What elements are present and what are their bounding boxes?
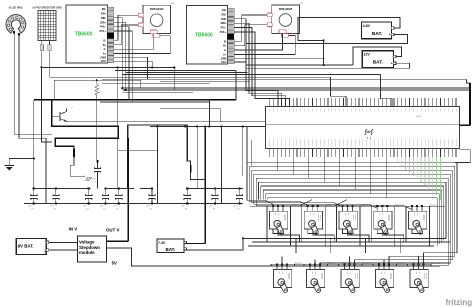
wire row1 mid drops	[295, 238, 297, 252]
capacitor bottom rail	[24, 203, 243, 205]
wire bus y72	[126, 72, 248, 74]
svg-text:DIR+: DIR+	[100, 20, 106, 24]
Servo 6 pin SIG	[354, 266, 356, 270]
Servo 5 pin V+	[347, 207, 349, 211]
device Q3 (bar symbol mid)	[190, 165, 192, 173]
wire U1 GND to bus	[114, 57, 148, 79]
wire connector y150.9	[118, 150, 158, 152]
svg-text:+: +	[391, 62, 393, 66]
svg-text:16 LED RING: 16 LED RING	[8, 8, 22, 10]
svg-text:A-: A-	[224, 48, 227, 52]
svg-text:IN V: IN V	[69, 227, 78, 232]
wire motor M2 lead B1	[234, 33, 282, 50]
wire staircase run 5	[256, 177, 448, 179]
wire x205 to 7.4V battery	[187, 243, 206, 245]
wire staircase pin drops (black)	[277, 157, 279, 170]
wire U1 VCC to bus	[114, 61, 153, 67]
wire U1 DIR+ to bus	[114, 22, 126, 90]
svg-text:ROB-09420: ROB-09420	[150, 8, 164, 11]
svg-text:fritzing: fritzing	[446, 298, 473, 307]
wire resistor to C10	[96, 95, 98, 161]
Servo 1 horn	[275, 221, 283, 234]
wire bus y99 (thick)	[34, 99, 236, 101]
svg-text:+: +	[44, 250, 46, 254]
wire row1 under-box loops	[273, 229, 284, 233]
wire 12V plus loop	[246, 63, 410, 68]
vertical net x157	[156, 126, 158, 203]
wire ring pin2 down	[19, 35, 46, 203]
Servo 7 pin SIG	[386, 207, 388, 211]
Servo 9 horn	[414, 221, 422, 234]
Arduino Mega top pin row	[270, 98, 456, 107]
wire bus y81	[160, 80, 250, 82]
Servo 4 horn	[312, 280, 320, 293]
wire grid pin2 down	[49, 51, 51, 77]
junction ground-caps	[33, 157, 35, 159]
Servo 7 pin V+	[381, 207, 383, 211]
wire bus y74	[122, 74, 381, 76]
capacitor C1	[28, 187, 37, 210]
wire motor M1 lead B2	[114, 36, 170, 54]
svg-text:-: -	[45, 239, 46, 243]
wire servo power rail row1	[243, 237, 446, 239]
wire U1 PUL- to bus	[114, 27, 129, 100]
svg-text:GND: GND	[100, 55, 106, 59]
Servo 8 pin SIG	[388, 266, 390, 270]
voltage stepdown module U3	[78, 236, 107, 262]
wire servo row2 power risers	[271, 263, 277, 266]
svg-text:——: ——	[455, 134, 459, 136]
svg-text:12V: 12V	[363, 53, 370, 57]
wire bus y101	[100, 101, 209, 103]
U2 microstep switch block	[227, 33, 234, 39]
junction grid bus	[40, 66, 42, 68]
Servo 2 horn	[279, 280, 287, 293]
wire bus y74 to MCU top	[381, 75, 393, 107]
wire thick mid loop	[128, 125, 191, 188]
wire staircase run 9	[265, 193, 439, 195]
svg-text:EN+: EN+	[221, 12, 227, 16]
Servo 3 pin GND	[307, 207, 309, 211]
wire 5V rail from module	[106, 248, 243, 266]
diode D1 (small, lower left)	[85, 177, 92, 180]
svg-text:PUL-: PUL-	[100, 25, 106, 29]
svg-text:PUL+: PUL+	[100, 29, 107, 33]
svg-text:TB6600: TB6600	[75, 32, 93, 38]
stepper motor M1 ROB-09420 body	[143, 5, 171, 33]
svg-text:DIR-: DIR-	[101, 16, 106, 20]
wire motor M2 lead B2	[234, 35, 295, 54]
svg-text:PUL-: PUL-	[221, 26, 227, 30]
wire motor M1 lead B1	[114, 34, 154, 50]
Servo 2 pin V+	[281, 266, 283, 270]
Servo 6 pin GND	[344, 266, 346, 270]
wire 9V+ to stepdown IN	[49, 241, 78, 243]
wire U2 DIR+ staircase to MCU	[234, 23, 282, 106]
svg-text:GND: GND	[221, 56, 227, 60]
wire 4.8V plus loop	[246, 35, 407, 44]
svg-text:-: -	[390, 25, 391, 29]
battery BT1 4.8V	[361, 22, 391, 39]
sensor grid J1 (matrix pad, top left)	[38, 10, 56, 40]
wire bus y90 (heavy)	[122, 89, 470, 91]
wire row1 interbox loops	[278, 229, 300, 242]
wire 4.8V minus loop	[298, 18, 400, 41]
Servo 5 horn	[345, 221, 353, 234]
svg-text:PWM: PWM	[416, 116, 422, 118]
wire bus y70	[115, 69, 236, 71]
svg-text:ROB-09420: ROB-09420	[279, 8, 293, 11]
capacitor C5	[113, 187, 122, 210]
M1 terminal B1 (bottom)	[150, 30, 157, 34]
wire thick riser x205	[204, 126, 206, 244]
Servo 9 pin SIG	[421, 207, 423, 211]
svg-text:A+: A+	[103, 52, 107, 56]
servo Servo 9 body	[409, 211, 427, 229]
svg-text:OUT V: OUT V	[106, 227, 119, 232]
Servo 9 pin GND	[411, 207, 413, 211]
wire staircase runs right verticals to servo row2	[424, 162, 458, 263]
wire bus y67 grid to drivers	[42, 66, 175, 68]
wire U2 PUL- staircase to MCU	[234, 28, 285, 107]
wire staircase runs 1-5 left verticals to servo row1 pads	[247, 162, 273, 205]
wire thick loop (5V distribution left)	[52, 100, 118, 149]
sensor grid pin 1	[41, 41, 43, 45]
Servo 4 pin SIG	[319, 266, 321, 270]
wire U1 PUL+ to bus	[114, 31, 132, 102]
svg-text:BAT.: BAT.	[372, 31, 382, 37]
BT1 plus terminal	[391, 33, 394, 36]
Servo 5 pin GND	[342, 207, 344, 211]
svg-text:DIR+: DIR+	[221, 21, 227, 25]
BT4 minus terminal	[184, 241, 186, 243]
svg-text:BAT.: BAT.	[373, 60, 383, 66]
capacitor C9	[234, 187, 243, 210]
wire bus y83	[102, 82, 209, 84]
Servo 10 pin GND	[413, 266, 415, 270]
vertical net x117	[117, 67, 119, 188]
svg-text:module: module	[79, 250, 95, 255]
resistor R1 10k	[95, 80, 99, 95]
wire U2 VCC to battery rail	[234, 62, 246, 65]
sensor grid pin 2	[49, 41, 51, 45]
M2 terminal A2 (left bottom)	[267, 23, 272, 27]
wire motor M1 lead A1	[114, 15, 139, 40]
wire grid pin1 down to bus	[41, 51, 43, 68]
vertical net x197	[196, 126, 198, 188]
wire bus y92	[122, 91, 193, 93]
wire servo row2 pad-level bus	[271, 263, 431, 265]
svg-text:TB6600: TB6600	[195, 33, 213, 39]
M2 terminal A1 (left top)	[267, 13, 272, 17]
wire bus y79	[102, 78, 466, 80]
Arduino Mega bottom pin row	[270, 148, 456, 157]
capacitor C2	[50, 187, 59, 210]
wire motor M2 lead A1	[234, 15, 267, 41]
Servo 2 pin SIG	[286, 266, 288, 270]
Servo 10 pin V+	[418, 266, 420, 270]
wire right edge drop	[466, 79, 470, 83]
wire U2 DIR- staircase to MCU	[234, 19, 278, 107]
vertical net x242	[242, 126, 244, 176]
wire C10 bottom	[97, 176, 99, 188]
servo Servo 8 body	[376, 270, 394, 288]
wire ring pin1 down	[14, 33, 52, 134]
wire Q1 emitter long run	[66, 120, 68, 123]
wire servo rail row1 b	[252, 241, 450, 243]
svg-text:B+: B+	[223, 44, 227, 48]
Servo 4 pin V+	[314, 266, 316, 270]
capacitor C10	[92, 160, 101, 183]
Servo 5 pin SIG	[352, 207, 354, 211]
wire staircase runs 6-10 right verticals to power rails	[445, 182, 447, 238]
wire diag row1	[299, 200, 312, 207]
wire bus y126	[150, 125, 266, 127]
wire staircase left feeds from upper nets	[246, 126, 248, 162]
battery BT3 9V	[16, 239, 46, 255]
wire 5V rail to row2	[243, 265, 440, 267]
M1 terminal A2 (left bottom)	[138, 23, 143, 27]
wire servo row1 pad-level bus	[250, 205, 445, 207]
wire rail y65	[246, 64, 353, 66]
LED ring pad 1	[13, 31, 15, 33]
svg-text:∫∞ʃ: ∫∞ʃ	[364, 129, 374, 136]
LED ring LED1 (16-LED ring, top left)	[6, 15, 26, 33]
wire Q3 down	[191, 173, 206, 180]
wire bus y88 (heavy)	[122, 87, 470, 89]
Servo 1 pin V+	[277, 207, 279, 211]
BT4 plus terminal	[184, 248, 186, 250]
stepper motor M2 ROB-09420 body	[272, 5, 300, 33]
wire staircase run 4	[254, 173, 451, 175]
svg-text:A-: A-	[103, 47, 106, 51]
M2 terminal B2 (bottom offset)	[282, 34, 289, 38]
svg-text:7.4V: 7.4V	[158, 241, 166, 245]
stepper driver U1 TB6600 body	[66, 5, 107, 63]
wire cap column C1	[33, 100, 35, 187]
device Q2 (bar symbol left)	[73, 149, 75, 158]
wire thick Q2 down	[70, 157, 85, 176]
wire grid pin1 branch down	[42, 67, 52, 141]
servo Servo 1 body	[270, 211, 288, 229]
svg-text:9V BAT.: 9V BAT.	[18, 243, 34, 248]
servo Servo 5 body	[339, 211, 357, 229]
vertical net x236	[235, 70, 237, 100]
svg-text:B-: B-	[224, 39, 227, 43]
svg-text:4.8V: 4.8V	[363, 24, 371, 28]
wire servo rail row1 c	[248, 245, 434, 247]
microcontroller A1 Arduino Mega body	[266, 107, 460, 149]
svg-text:PUL+: PUL+	[220, 30, 227, 34]
servo Servo 10 body	[410, 270, 428, 288]
capacitor C7	[182, 187, 191, 210]
servo Servo 2 body	[274, 270, 292, 288]
servo Servo 3 body	[304, 211, 322, 229]
svg-text:5V: 5V	[112, 261, 117, 266]
svg-text:Voltage: Voltage	[79, 239, 95, 244]
svg-text:+: +	[389, 33, 391, 37]
servo Servo 4 body	[307, 270, 325, 288]
BT1 minus terminal	[391, 27, 394, 30]
wire right edge into MCU	[460, 124, 471, 126]
Servo 10 pin SIG	[423, 266, 425, 270]
BT3 minus terminal	[46, 241, 49, 244]
wire motor M1 lead A2	[114, 25, 139, 45]
wire staircase runs 6-10 left verticals short	[258, 182, 260, 199]
wire battery tie vertical	[323, 40, 325, 65]
svg-text:Stepdown: Stepdown	[79, 245, 100, 250]
wire bus y88 feed	[469, 88, 471, 90]
svg-text:-: -	[392, 54, 393, 58]
capacitor top rail	[34, 187, 91, 189]
capacitor C6	[147, 187, 156, 210]
svg-text:EN-: EN-	[222, 8, 227, 12]
svg-text:VCC: VCC	[101, 59, 107, 63]
U1 microstep switch block	[107, 32, 114, 38]
wire staircase run 6	[259, 181, 447, 183]
battery BT4 7.4V	[157, 239, 184, 252]
wire U2 PUL+ staircase to MCU	[234, 32, 289, 107]
Servo 9 pin V+	[416, 207, 418, 211]
vertical net x221	[220, 126, 222, 203]
wire staircase green pin drops	[397, 157, 399, 163]
wire U1 DIR- to bus	[114, 18, 123, 88]
wire 7.4V plus to servo rail	[187, 238, 243, 249]
wire staircase run 3	[252, 169, 453, 171]
wire staircase run 8	[263, 189, 442, 191]
wire bus y77 to MCU top	[330, 77, 346, 106]
vertical net x209	[208, 99, 210, 126]
wire motor M2 lead A2	[234, 25, 267, 46]
wire green long drops right	[432, 157, 434, 196]
Servo 3 pin V+	[312, 207, 314, 211]
capacitor C3	[83, 187, 92, 210]
wire bus y108	[160, 109, 221, 122]
BT2 plus terminal	[393, 62, 396, 65]
BT3 plus terminal	[46, 249, 49, 252]
capacitor C4	[100, 187, 109, 210]
wire staircase run 7	[261, 185, 444, 187]
Servo 4 pin GND	[309, 266, 311, 270]
servo Servo 7 body	[374, 211, 392, 229]
wire staircase run 2	[249, 165, 454, 167]
Servo 10 horn	[416, 280, 424, 293]
wire thick OUT V riser x128	[127, 138, 129, 241]
svg-text:16 PHOTORESISTOR GRID: 16 PHOTORESISTOR GRID	[32, 8, 62, 10]
BT2 minus terminal	[393, 55, 396, 58]
M1 terminal B2 (bottom offset)	[153, 34, 160, 38]
wire staircase run 10	[268, 197, 438, 199]
ground symbol GND1	[5, 166, 14, 171]
junction 4.8V rail	[323, 39, 325, 41]
svg-text:EN-: EN-	[102, 7, 107, 11]
wire 9V- to stepdown IN-	[49, 249, 78, 251]
Servo 1 pin GND	[272, 207, 274, 211]
wire MCU right edge loop to run1	[455, 150, 470, 163]
svg-text:Servo 10: Servo 10	[431, 262, 441, 265]
wire bus y77	[50, 76, 331, 78]
wire 12V minus loop	[353, 47, 402, 65]
svg-text:B-: B-	[103, 38, 106, 42]
Servo 1 pin SIG	[282, 207, 284, 211]
Servo 2 pin GND	[276, 266, 278, 270]
svg-text:EN+: EN+	[101, 12, 107, 16]
svg-text:A+: A+	[223, 53, 227, 57]
LED ring pad 2	[18, 33, 20, 35]
wire loop left box	[54, 80, 140, 100]
wire U2 GND to battery rail	[234, 57, 325, 59]
junction battery tie bottom	[323, 64, 325, 66]
servo Servo 6 body	[341, 270, 359, 288]
Servo 8 pin V+	[383, 266, 385, 270]
wire servo row1 power risers	[267, 206, 273, 242]
capacitor C8	[210, 187, 219, 210]
Servo 3 horn	[310, 221, 318, 234]
M2 terminal B1 (bottom)	[279, 30, 286, 34]
Servo 6 horn	[347, 280, 355, 293]
svg-text:B+: B+	[103, 43, 107, 47]
wire staircase run 1	[247, 161, 457, 163]
svg-text:DIR-: DIR-	[221, 17, 226, 21]
junction servo power rail	[242, 237, 244, 239]
Servo 7 pin GND	[376, 207, 378, 211]
Servo 8 horn	[381, 280, 389, 293]
stepper driver U2 TB6600 body	[186, 6, 227, 64]
battery BT2 12V	[362, 51, 393, 68]
wire ground stem	[9, 159, 34, 166]
transistor Q1	[52, 107, 74, 121]
vertical net x174	[173, 67, 175, 90]
M1 terminal A1 (left top)	[138, 13, 143, 17]
Servo 7 horn	[379, 221, 387, 234]
svg-text:——: ——	[455, 120, 459, 122]
svg-text:VCC: VCC	[221, 60, 227, 64]
svg-text:BAT.: BAT.	[166, 247, 176, 252]
Servo 6 pin V+	[349, 266, 351, 270]
Servo 3 pin SIG	[317, 207, 319, 211]
Servo 8 pin GND	[378, 266, 380, 270]
